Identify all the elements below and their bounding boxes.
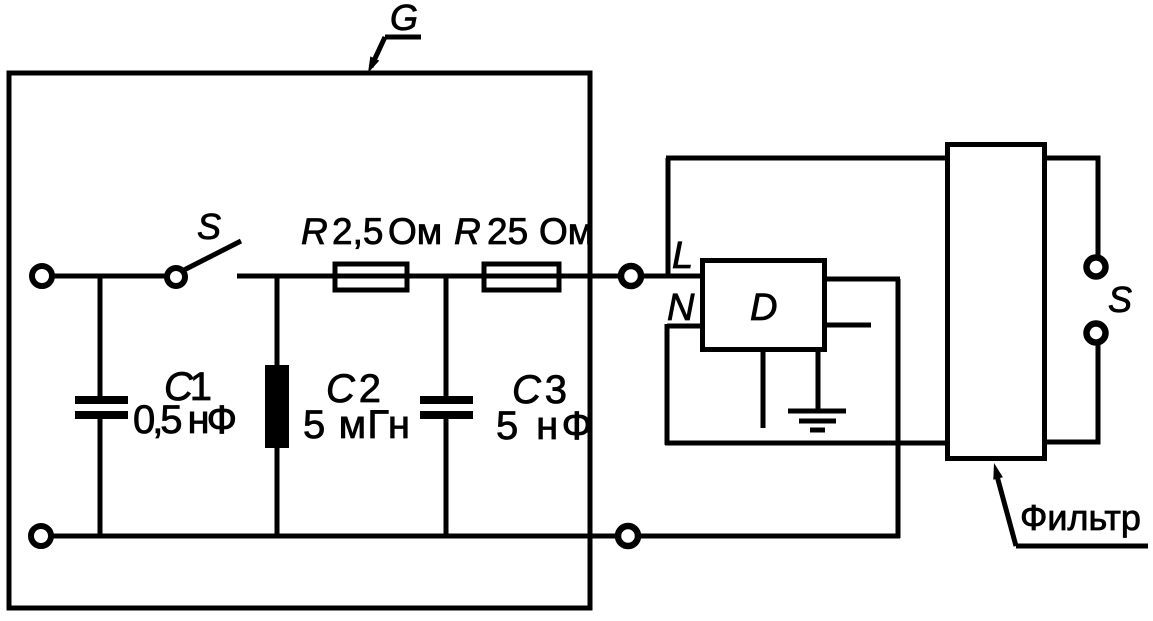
svg-text:N: N: [667, 287, 695, 329]
svg-text:D: D: [750, 287, 777, 329]
svg-text:R2,5Ом: R2,5Ом: [301, 211, 442, 252]
svg-text:G: G: [390, 0, 418, 38]
svg-text:0,5 нФ: 0,5 нФ: [133, 398, 237, 442]
svg-text:S: S: [1108, 279, 1132, 320]
svg-text:Фильтр: Фильтр: [1020, 497, 1141, 538]
svg-text:5 мГн: 5 мГн: [303, 403, 410, 447]
svg-text:S: S: [197, 206, 221, 247]
svg-text:L: L: [672, 235, 693, 277]
svg-text:5 нФ: 5 нФ: [496, 404, 592, 448]
svg-text:R25Ом: R25Ом: [454, 211, 593, 252]
